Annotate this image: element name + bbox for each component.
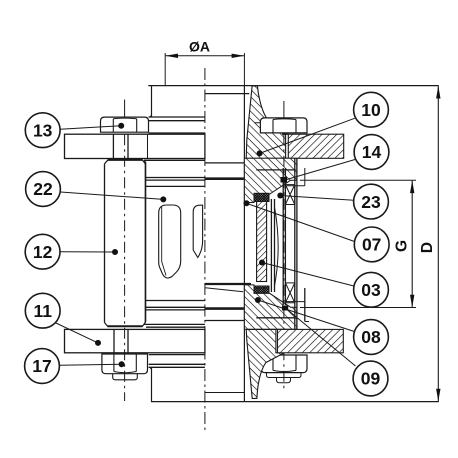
leader balloon08 xyxy=(258,300,354,332)
barrel groove lines top xyxy=(146,177,205,179)
balloon 10 xyxy=(354,92,389,127)
leader balloon14 xyxy=(285,160,355,181)
window slot 2 partial xyxy=(193,205,202,257)
seat detail line top xyxy=(256,169,296,171)
leader balloon03 xyxy=(262,263,354,287)
body collar lines left bottom mirror xyxy=(149,366,205,368)
svg-text:23: 23 xyxy=(361,192,381,212)
body collar lines left xyxy=(149,116,205,118)
window slot 1 inner edge xyxy=(162,207,166,276)
sleeve step line top xyxy=(286,185,305,187)
barrel left wall xyxy=(144,160,146,324)
body neck left wall xyxy=(151,86,153,117)
leader balloon09 xyxy=(286,309,356,367)
hex bolt head top-left xyxy=(101,117,149,132)
svg-text:14: 14 xyxy=(362,142,382,162)
glass cylinder section xyxy=(257,202,267,282)
bolt centerline continuous left xyxy=(124,134,126,401)
flange ring bar top right hatched xyxy=(288,134,343,158)
neck to collar corner top xyxy=(149,114,152,117)
leader balloon17 xyxy=(59,364,121,365)
svg-text:08: 08 xyxy=(361,327,381,347)
balloon 17 xyxy=(25,349,60,384)
svg-text:10: 10 xyxy=(361,100,381,120)
neck to collar corner bottom xyxy=(149,367,152,370)
svg-text:D: D xyxy=(419,242,436,253)
balloon 22 xyxy=(26,172,61,207)
dimension G line xyxy=(411,181,413,308)
svg-text:G: G xyxy=(394,240,411,252)
svg-text:22: 22 xyxy=(33,179,53,199)
barrel bottom face xyxy=(144,323,205,325)
dimension ØA line with arrows xyxy=(165,55,244,57)
balloon 09 xyxy=(353,361,388,396)
top flange plate (left, external view) xyxy=(65,134,205,158)
window slot 1 xyxy=(159,205,181,278)
dimension ØA extension line right xyxy=(243,53,245,86)
balloon 11 xyxy=(25,293,60,328)
hex nut bottom-right xyxy=(261,355,307,373)
balloon 14 xyxy=(354,135,389,170)
top gasket xyxy=(254,193,269,201)
bolt centerline right continuous xyxy=(283,134,285,392)
balloon 12 xyxy=(25,234,60,269)
body bottom face line + D bottom extension xyxy=(151,401,439,403)
balloon 08 xyxy=(354,320,389,355)
spacer sleeve item12 top face xyxy=(105,160,146,164)
spacer sleeve bottom face xyxy=(105,323,146,327)
leader balloon10 xyxy=(260,118,356,154)
svg-text:12: 12 xyxy=(33,242,53,262)
svg-text:17: 17 xyxy=(32,356,51,376)
stub end and flange hub top right hatched xyxy=(246,86,285,158)
centerline main vertical axis xyxy=(204,68,206,432)
balloon 03 xyxy=(354,272,389,307)
bottom gasket xyxy=(254,286,269,294)
glass seat thick line top xyxy=(205,177,244,180)
washer under nut xyxy=(113,374,138,380)
flange hub top face right xyxy=(205,93,249,95)
body top face line + D top extension xyxy=(148,85,439,87)
glass inner silhouette arc xyxy=(275,207,279,286)
bolt hole lines in bottom plate xyxy=(113,329,115,352)
svg-text:ØA: ØA xyxy=(189,39,210,55)
svg-text:13: 13 xyxy=(33,120,53,140)
bolt hole edge lines top xyxy=(282,133,288,135)
glass bottom silhouette thick xyxy=(205,283,251,285)
glass seat block bottom hatched xyxy=(244,285,297,329)
hub slant over nut redrawn xyxy=(266,353,285,363)
dimension ØA extension line left xyxy=(164,53,166,85)
cushion seal X square bottom xyxy=(285,283,294,303)
svg-text:03: 03 xyxy=(361,280,381,300)
bottom flange plate (left, external view) xyxy=(65,329,205,352)
flange ring bar bottom right hatched xyxy=(278,329,344,352)
barrel top face xyxy=(144,159,205,161)
balloon 07 xyxy=(354,227,389,262)
balloon 13 xyxy=(25,113,60,148)
leader balloon23 xyxy=(280,196,353,201)
dimension G extension bottom xyxy=(300,307,416,309)
leader balloon22 xyxy=(61,192,164,199)
right bore wall xyxy=(243,86,245,402)
sleeve lines right of glass xyxy=(270,199,272,292)
leader balloon13 xyxy=(60,126,121,130)
inner silhouette line top xyxy=(205,162,245,164)
hex nut bottom-left xyxy=(102,354,148,374)
bolt hole lines in top plate xyxy=(112,134,114,158)
svg-text:09: 09 xyxy=(361,369,381,389)
flange hub bottom face silhouette xyxy=(205,392,245,394)
balloon 23 xyxy=(354,184,389,219)
sleeve step line bottom xyxy=(286,301,305,303)
stub flare lip line top xyxy=(255,122,273,124)
leader balloon11 xyxy=(55,323,98,343)
cone silhouette bottom xyxy=(205,288,243,292)
stub end and flange hub bottom right hatched xyxy=(246,329,284,398)
stud end right xyxy=(277,378,291,383)
spacer sleeve item12 body xyxy=(104,164,106,323)
barrel groove lines bottom xyxy=(146,309,205,311)
bolt centerline top right xyxy=(283,101,285,118)
svg-text:11: 11 xyxy=(33,301,52,321)
bolt centerline top xyxy=(124,100,126,117)
body neck left wall bottom xyxy=(151,367,153,401)
leader balloon12 xyxy=(60,251,115,253)
dimension D line xyxy=(437,86,439,401)
seat detail line bottom xyxy=(256,317,296,319)
dimension G extension top xyxy=(300,179,416,181)
svg-text:07: 07 xyxy=(362,235,381,255)
leader balloon07 xyxy=(247,203,355,241)
washer under right nut xyxy=(267,373,302,378)
inner silhouette line bottom xyxy=(205,320,245,322)
cushion seal X square top xyxy=(285,185,294,205)
glass seat thick line bottom xyxy=(205,307,244,310)
hex bolt head top-right xyxy=(260,118,307,133)
glass seat block top hatched xyxy=(244,158,297,202)
